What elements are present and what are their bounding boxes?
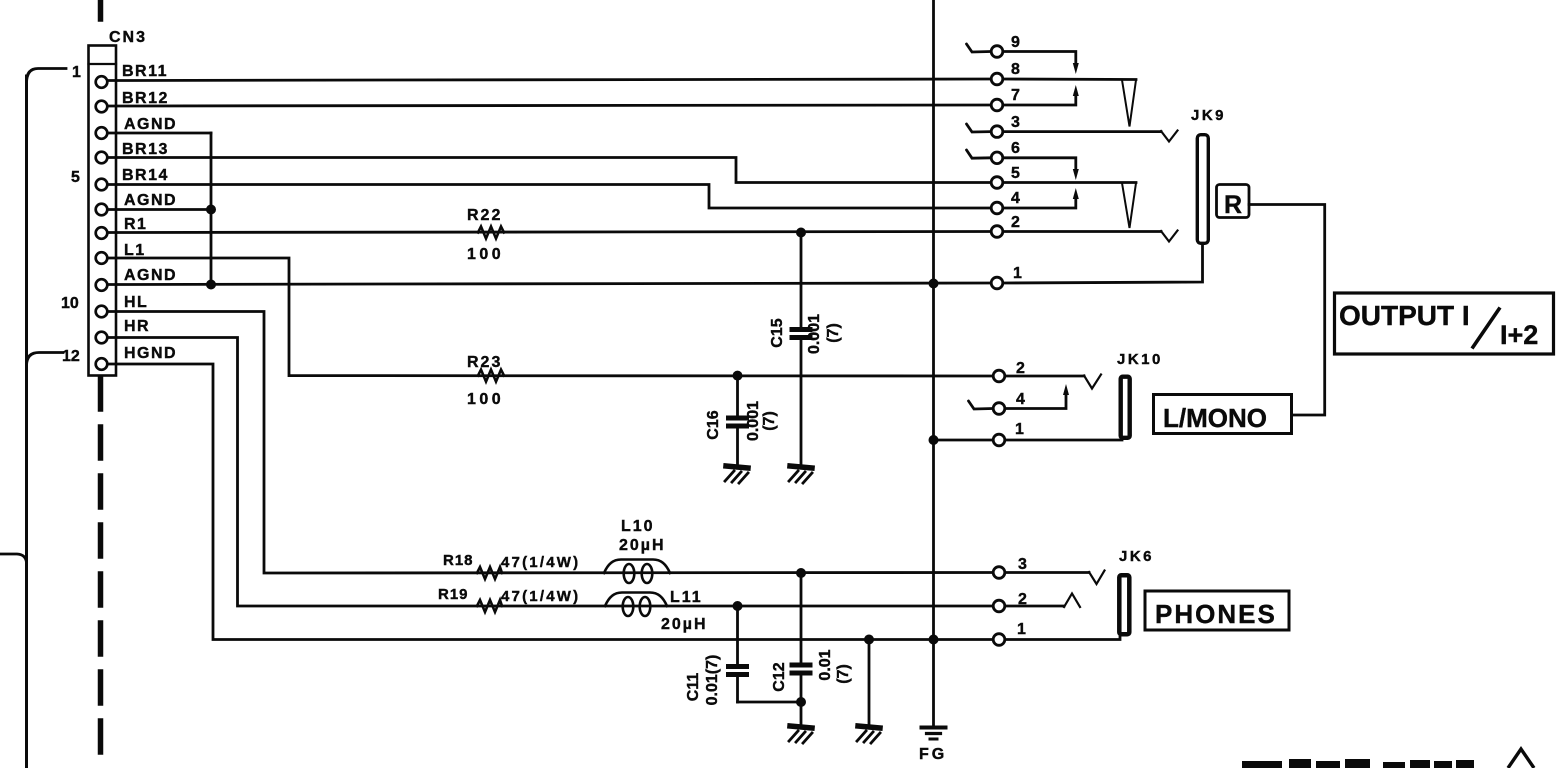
svg-text:0.001: 0.001: [806, 314, 823, 354]
svg-text:HL: HL: [124, 294, 148, 311]
JK6 pin 3 wire with check contact: [1005, 571, 1089, 574]
resistor R22: [478, 227, 504, 239]
svg-text:6: 6: [1011, 140, 1020, 157]
JK9 contact 3 switch hook: [967, 124, 992, 132]
svg-text:AGND: AGND: [124, 192, 177, 209]
svg-text:L10: L10: [621, 518, 655, 535]
svg-text:9: 9: [1011, 34, 1020, 51]
svg-text:(7): (7): [825, 323, 842, 343]
JK9 contact 4: [991, 202, 1003, 214]
CN3 pin 9: [96, 279, 108, 291]
svg-text:0.001: 0.001: [745, 401, 762, 441]
svg-text:JK10: JK10: [1117, 351, 1163, 368]
JK9 pin 9 wire with down arrow: [1003, 52, 1076, 67]
svg-text:AGND: AGND: [124, 267, 177, 284]
JK6 contact 3: [993, 567, 1005, 579]
svg-text:(7): (7): [761, 411, 778, 431]
wire stub from left edge: [0, 554, 27, 563]
capacitor C12: [792, 573, 810, 726]
svg-text:12: 12: [62, 348, 80, 365]
node HR / C11: [733, 601, 743, 611]
svg-text:47(1/4W): 47(1/4W): [501, 588, 580, 605]
svg-text:2: 2: [1011, 214, 1020, 231]
JK9 contact 3: [991, 126, 1003, 138]
JK9 contact 6 switch hook: [967, 150, 992, 158]
svg-text:C16: C16: [705, 410, 722, 439]
wire HL (pin10 down and right to JK6 contact 3): [108, 312, 992, 574]
CN3 pin 3: [96, 127, 108, 139]
CN3 pin 7: [96, 227, 108, 239]
JK9 pin 8 wire to spring V: [1003, 78, 1136, 81]
svg-text:L1: L1: [124, 242, 146, 259]
wire HGND (pin12 down and right to JK6 contact 1): [108, 364, 992, 640]
connector CN3 body: [89, 46, 117, 376]
JK10 pin 2 wire with check contact: [1005, 375, 1084, 378]
svg-text:5: 5: [71, 169, 80, 186]
wire BR12 (pin2 to JK9 contact 7): [108, 105, 992, 106]
CN3 pin 6: [96, 204, 108, 216]
JK10 contact 1: [993, 434, 1005, 446]
svg-text:C12: C12: [771, 662, 788, 691]
JK10 pin 1 wire from FG node to jack sleeve: [934, 439, 994, 442]
dashed panel boundary (lower run): [98, 378, 104, 768]
JK9 contact 9: [991, 46, 1003, 58]
svg-text:L11: L11: [670, 589, 703, 606]
svg-text:3: 3: [1011, 114, 1020, 131]
inductor L11: [605, 593, 667, 617]
svg-text:HGND: HGND: [124, 345, 177, 362]
jack JK10 body: [1121, 377, 1130, 438]
svg-text:(7): (7): [835, 664, 852, 684]
ground (below C15): [789, 466, 812, 483]
wire BR13 (pin4 to JK9 contact 5): [108, 158, 992, 183]
jack JK6 body: [1119, 575, 1129, 634]
JK9 contact 9 switch hook: [967, 44, 992, 52]
svg-text:R18: R18: [443, 552, 474, 569]
wire tick to pin 1: [27, 69, 67, 83]
svg-text:C11: C11: [685, 673, 702, 702]
svg-text:PHONES: PHONES: [1155, 599, 1277, 629]
JK6 pin 2 wire with open caret contact: [1005, 605, 1064, 608]
svg-text:L/MONO: L/MONO: [1163, 403, 1267, 433]
wire R1 (pin7 through R22 to JK9 contact 2): [108, 232, 992, 233]
label box L/MONO: [1154, 395, 1292, 434]
wire HR (pin11 down and right to JK6 contact 2): [108, 338, 992, 607]
svg-text:1: 1: [1015, 421, 1024, 438]
CN3 pin 2: [96, 101, 108, 113]
JK9 pin 4 wire with up arrow: [1003, 196, 1076, 208]
svg-text:1: 1: [1017, 621, 1026, 638]
CN3 pin 10: [96, 306, 108, 318]
JK10 contact 2: [993, 370, 1005, 382]
JK10 contact 4: [993, 403, 1005, 415]
JK9 pin 5 wire to spring V: [1003, 181, 1136, 184]
JK10 pin 4 wire with up arrow: [1005, 392, 1066, 409]
svg-text:2: 2: [1018, 591, 1027, 608]
ground (right of C12): [857, 726, 880, 743]
wire R box to output corner: [1249, 205, 1325, 416]
JK6 pin 1 wire to jack sleeve: [1005, 637, 1120, 640]
JK9 spring contact V (tip): [1122, 80, 1136, 127]
svg-text:4: 4: [1016, 391, 1025, 408]
node HGND / ground stub: [864, 635, 874, 645]
node R1 / C15: [796, 228, 806, 238]
net FG vertical line: [932, 0, 935, 726]
JK9 contact 5: [991, 177, 1003, 189]
svg-text:JK6: JK6: [1119, 548, 1154, 565]
JK10 contact 4 switch hook: [969, 401, 994, 409]
node R23 / C16: [733, 371, 743, 381]
svg-text:1: 1: [1013, 265, 1022, 282]
JK9 pin 2 wire with check contact: [1003, 230, 1161, 233]
JK9 contact 2: [991, 226, 1003, 238]
JK9 pin 3 wire with check contact: [1003, 130, 1161, 133]
svg-text:R19: R19: [438, 586, 469, 603]
svg-text:3: 3: [1018, 556, 1027, 573]
wire AGND bus vertical: [210, 133, 213, 285]
wire AGND pin6 to bus: [108, 208, 212, 211]
capacitor C16: [729, 376, 747, 466]
svg-text:0.01(7): 0.01(7): [704, 655, 721, 706]
svg-text:100: 100: [467, 246, 504, 263]
CN3 pin 12: [96, 358, 108, 370]
cut-off title block text at bottom edge: [1242, 759, 1474, 768]
svg-text:7: 7: [1011, 87, 1020, 104]
JK9 spring contact V (ring): [1122, 183, 1136, 228]
node AGND bus / pin9: [206, 280, 216, 290]
ground FG (earth bars): [922, 728, 946, 740]
node FG / JK10 pin1 wire: [929, 435, 939, 445]
wire BR14 (pin5 to JK9 contact 4): [108, 185, 992, 209]
wire tick to pin 12: [27, 353, 64, 365]
node AGND bus / pin6: [206, 205, 216, 215]
svg-text:JK9: JK9: [1191, 107, 1226, 124]
node C11/C12: [796, 697, 806, 707]
svg-text:BR14: BR14: [122, 167, 169, 184]
CN3 pin 8: [96, 252, 108, 264]
dashed panel boundary (top segment): [98, 0, 104, 19]
CN3 pin 11: [96, 332, 108, 344]
svg-text:4: 4: [1011, 190, 1020, 207]
JK9 contact 8: [991, 73, 1003, 85]
JK9 pin 7 wire with up arrow: [1003, 93, 1076, 105]
JK6 contact 2: [993, 600, 1005, 612]
svg-text:R1: R1: [124, 216, 147, 233]
svg-text:100: 100: [467, 391, 504, 408]
label box PHONES: [1145, 591, 1289, 630]
jack JK9 body: [1197, 135, 1208, 244]
wire C11 bottom to C12 column: [738, 701, 802, 704]
svg-text:BR13: BR13: [122, 141, 169, 158]
svg-text:1: 1: [72, 64, 81, 81]
inductor L10: [604, 560, 670, 584]
svg-text:C15: C15: [769, 318, 786, 347]
label R box: [1217, 185, 1250, 218]
JK9 contact 7: [991, 99, 1003, 111]
left bus wire vertical: [25, 76, 28, 768]
CN3 pin 4: [96, 152, 108, 164]
svg-text:BR11: BR11: [122, 63, 168, 80]
JK9 contact 1: [991, 277, 1003, 289]
node HL / C12 column: [796, 568, 806, 578]
JK9 pin 6 wire with down arrow: [1003, 158, 1076, 172]
svg-text:R22: R22: [467, 207, 502, 224]
capacitor C11: [729, 606, 747, 702]
wire BR11 (pin1 to JK9 contact 8): [108, 79, 992, 81]
svg-text:AGND: AGND: [124, 116, 177, 133]
svg-text:FG: FG: [919, 746, 947, 763]
svg-text:2: 2: [1016, 360, 1025, 377]
capacitor C15: [792, 233, 810, 467]
svg-text:20µH: 20µH: [619, 537, 666, 554]
wire AGND pin3 to bus: [108, 132, 212, 135]
svg-text:47(1/4W): 47(1/4W): [501, 554, 580, 571]
svg-text:5: 5: [1011, 165, 1020, 182]
ground (below C16): [725, 466, 748, 483]
wire L1 (pin8 down and through R23 to JK10 contact 2): [108, 258, 992, 376]
svg-text:HR: HR: [124, 318, 150, 335]
JK9 pin 1 wire to jack sleeve: [1003, 246, 1203, 283]
resistor R18: [477, 567, 502, 579]
svg-text:0.01: 0.01: [817, 649, 834, 680]
svg-text:R: R: [1224, 191, 1242, 219]
CN3 pin 5: [96, 179, 108, 191]
svg-text:20µH: 20µH: [661, 616, 708, 633]
wire ground stub: [868, 640, 871, 727]
revision triangle marker: [1508, 749, 1534, 768]
JK6 contact 1: [993, 634, 1005, 646]
svg-text:10: 10: [61, 295, 79, 312]
CN3 pin 1: [96, 76, 108, 88]
svg-text:CN3: CN3: [109, 29, 147, 46]
JK9 contact 6: [991, 152, 1003, 164]
svg-text:I+2: I+2: [1500, 320, 1538, 350]
resistor R23: [478, 370, 504, 382]
svg-text:BR12: BR12: [122, 90, 169, 107]
node FG / HGND wire: [929, 635, 939, 645]
svg-text:8: 8: [1011, 61, 1020, 78]
resistor R19: [477, 600, 502, 612]
ground (below C12): [789, 726, 812, 743]
slash of OUTPUT 1/1+2: [1473, 309, 1499, 347]
wire AGND pin9 long run to JK9 contact 1: [108, 283, 992, 285]
svg-text:R23: R23: [467, 354, 502, 371]
node FG / AGND wire: [929, 279, 939, 289]
svg-text:OUTPUT I: OUTPUT I: [1339, 300, 1470, 331]
label box OUTPUT 1/1+2: [1335, 293, 1554, 354]
